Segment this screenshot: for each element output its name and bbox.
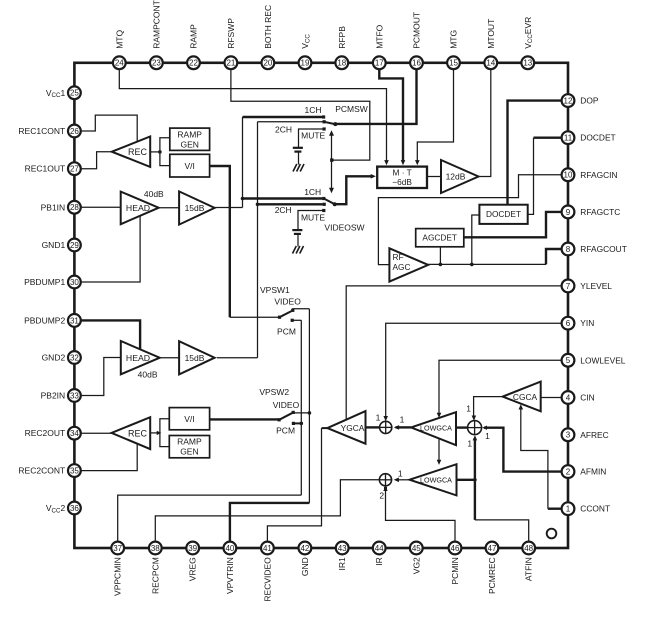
svg-text:REC: REC bbox=[128, 147, 148, 157]
pin 36 Vcc2 bbox=[68, 502, 81, 515]
pin 35 REC2CONT bbox=[68, 464, 81, 477]
svg-text:DOP: DOP bbox=[580, 96, 599, 106]
svg-text:BOTH REC: BOTH REC bbox=[263, 5, 273, 49]
svg-text:GEN: GEN bbox=[180, 447, 198, 457]
wire node2 output to LOWGCA1 input bbox=[456, 426, 468, 428]
svg-text:17: 17 bbox=[375, 59, 384, 68]
svg-text:RAMP: RAMP bbox=[177, 129, 202, 139]
svg-text:1: 1 bbox=[466, 404, 471, 414]
svg-text:5: 5 bbox=[566, 356, 571, 365]
svg-text:VIDEO: VIDEO bbox=[274, 296, 301, 306]
wire REC2 input junction to V-I2 / RAMP GEN2 bbox=[150, 432, 157, 434]
svg-text:PCMIN: PCMIN bbox=[450, 557, 460, 584]
pin 30 PBDUMP1 bbox=[68, 276, 81, 289]
block RAMP GEN 1 bbox=[170, 128, 210, 150]
svg-text:16: 16 bbox=[412, 59, 421, 68]
svg-text:GND2: GND2 bbox=[42, 353, 66, 363]
svg-text:VREG: VREG bbox=[188, 557, 198, 581]
svg-text:VPPCMIN: VPPCMIN bbox=[113, 557, 123, 596]
pin 33 PB2IN bbox=[68, 389, 81, 402]
svg-text:2CH: 2CH bbox=[275, 125, 292, 135]
wire pin2 AFMIN to summing node2 bbox=[484, 428, 562, 472]
pin 27 REC1OUT bbox=[68, 162, 81, 175]
svg-text:37: 37 bbox=[113, 544, 122, 553]
IC orientation dot bbox=[547, 529, 557, 539]
svg-text:30: 30 bbox=[70, 278, 79, 287]
svg-text:VCCEVR: VCCEVR bbox=[523, 17, 534, 49]
svg-text:12: 12 bbox=[564, 97, 573, 106]
svg-text:CCONT: CCONT bbox=[580, 504, 610, 514]
pin 15 MTG bbox=[447, 56, 460, 69]
svg-text:GEN: GEN bbox=[180, 139, 198, 149]
wire pin1 CCONT to CGCA gain control bbox=[548, 508, 562, 510]
svg-text:AFMIN: AFMIN bbox=[580, 467, 606, 477]
svg-text:15dB: 15dB bbox=[185, 203, 205, 213]
pin 46 PCMIN bbox=[449, 542, 462, 555]
IC body outline bbox=[74, 63, 568, 548]
svg-text:2: 2 bbox=[566, 468, 571, 477]
svg-text:1CH: 1CH bbox=[304, 187, 321, 197]
VPSW2 video contact junction bbox=[293, 412, 309, 414]
svg-text:MTOUT: MTOUT bbox=[486, 19, 496, 49]
svg-text:31: 31 bbox=[70, 316, 79, 325]
svg-text:35: 35 bbox=[70, 467, 79, 476]
svg-text:29: 29 bbox=[70, 241, 79, 250]
wire pin11 DOCDET pin to DOCDET box right bbox=[534, 136, 562, 138]
wire VIDEOSW pole to M-T block left input bbox=[335, 176, 372, 204]
pin 38 RECPCM bbox=[149, 542, 162, 555]
svg-text:IR: IR bbox=[374, 557, 384, 566]
pin 40 VPVTRIN bbox=[224, 542, 237, 555]
wire pin46 PCMIN to summing node3 bottom bbox=[386, 488, 456, 542]
svg-text:MUTE: MUTE bbox=[301, 131, 325, 141]
pin 44 IR bbox=[373, 542, 386, 555]
block DOCDET bbox=[479, 205, 527, 224]
svg-text:11: 11 bbox=[564, 134, 573, 143]
svg-text:1: 1 bbox=[566, 505, 571, 514]
VIDEOSW mute capacitor to ground bbox=[298, 211, 324, 230]
pin 34 REC2OUT bbox=[68, 427, 81, 440]
svg-text:PCM: PCM bbox=[276, 426, 295, 436]
op-amp HEAD2 bbox=[121, 341, 160, 374]
VPSW1 switch bbox=[278, 316, 281, 319]
summing node 2 bbox=[468, 421, 482, 435]
pin 12 DOP bbox=[562, 94, 575, 107]
block RAMP GEN 2 bbox=[169, 436, 209, 458]
svg-text:RFSWP: RFSWP bbox=[226, 18, 236, 49]
svg-text:RF: RF bbox=[393, 252, 404, 262]
svg-text:GND1: GND1 bbox=[42, 240, 66, 250]
svg-text:18: 18 bbox=[337, 59, 346, 68]
wire pin24 MTQ to M-T block top-left input bbox=[119, 69, 386, 161]
2CH line to PCMSW contact bbox=[258, 121, 323, 123]
svg-text:43: 43 bbox=[338, 544, 347, 553]
switch linkage line (ganged PCMSW/VIDEOSW) bbox=[331, 134, 333, 190]
junction on switch linkage bbox=[330, 158, 333, 161]
wire pin16 PCMOUT to PCMSW pole bbox=[336, 69, 417, 124]
svg-text:PBDUMP2: PBDUMP2 bbox=[24, 315, 65, 325]
op-amp 15dB 2 bbox=[179, 341, 215, 374]
wire pin14 MTOUT from 12dB output bbox=[479, 69, 491, 176]
svg-text:YLEVEL: YLEVEL bbox=[580, 281, 612, 291]
pin 9 RFAGCTC bbox=[562, 206, 575, 219]
wire pin30 PBDUMP1 to HEAD1 bottom edge bbox=[81, 216, 140, 283]
svg-text:HEAD: HEAD bbox=[126, 353, 150, 363]
wire HEAD2 output to 15dB2 input bbox=[160, 357, 179, 359]
wire LOWGCA2 output to summing node3 bbox=[395, 479, 409, 481]
wire pin10 RFAGCIN to RF AGC input bbox=[378, 175, 561, 265]
VPSW2 switch bbox=[278, 418, 281, 421]
wire pin6 YIN to summing node 1 bbox=[386, 323, 562, 417]
svg-text:REC1OUT: REC1OUT bbox=[25, 164, 66, 174]
wire pin48 ATFIN to node2 bottom and LOWGCA2 input bbox=[475, 520, 529, 542]
svg-text:YIN: YIN bbox=[580, 318, 594, 328]
wire 15dB2 output to 2CH bus bbox=[217, 357, 258, 359]
svg-text:4: 4 bbox=[566, 393, 571, 402]
svg-text:33: 33 bbox=[70, 391, 79, 400]
svg-text:MTFO: MTFO bbox=[374, 24, 384, 48]
wire REC1 input junction to RAMP GEN1 / V-I1 bbox=[150, 151, 160, 153]
2CH bus vertical bbox=[257, 122, 259, 358]
wire AGCDET bottom stub to RF AGC output line bbox=[439, 247, 441, 265]
svg-text:VIDEOSW: VIDEOSW bbox=[324, 222, 364, 232]
svg-text:1: 1 bbox=[485, 431, 490, 441]
block V/I 1 bbox=[170, 154, 210, 177]
svg-text:ATFIN: ATFIN bbox=[524, 557, 534, 581]
2CH line to VIDEOSW contact bbox=[258, 203, 323, 205]
svg-text:REC: REC bbox=[128, 428, 148, 438]
svg-text:6: 6 bbox=[566, 319, 571, 328]
svg-text:VG2: VG2 bbox=[411, 557, 421, 574]
ground symbol (PCMSW mute) bbox=[293, 164, 297, 172]
pin 48 ATFIN bbox=[522, 542, 535, 555]
svg-text:MUTE: MUTE bbox=[301, 213, 325, 223]
svg-text:9: 9 bbox=[566, 208, 571, 217]
wire pin7 YLEVEL to YGCA gain control bbox=[346, 286, 561, 419]
svg-text:1: 1 bbox=[376, 413, 381, 423]
svg-text:24: 24 bbox=[115, 59, 124, 68]
wire pin35 REC2CONT to REC2 bottom edge bbox=[81, 443, 137, 471]
pin 29 GND1 bbox=[68, 239, 81, 252]
svg-text:YGCA: YGCA bbox=[341, 423, 365, 433]
video bus to pin40 VPVTRIN bbox=[308, 413, 310, 503]
svg-text:PCMOUT: PCMOUT bbox=[412, 12, 422, 49]
svg-text:15: 15 bbox=[449, 59, 458, 68]
PCMSW switch contacts and arm bbox=[322, 115, 325, 118]
wire pin27 REC1OUT from REC1 output bbox=[81, 152, 112, 169]
wire summing node1 to YGCA input bbox=[366, 426, 380, 428]
wire 15dB1 output to 1CH bus bbox=[215, 207, 243, 209]
wire HEAD1 output to 15dB1 input bbox=[159, 207, 179, 209]
pin 16 PCMOUT bbox=[410, 56, 423, 69]
video bus vertical bbox=[308, 309, 310, 413]
VPSW2 pcm contact junction bbox=[293, 422, 301, 424]
pin 22 RAMP bbox=[187, 56, 200, 69]
svg-text:40dB: 40dB bbox=[144, 189, 164, 199]
wire pin17 MTFO to M-T block top-middle input bbox=[379, 69, 403, 161]
wire summing node3 output to pin38 RECPCM bbox=[155, 480, 379, 542]
pin 4 CIN bbox=[562, 391, 575, 404]
wire pin26 REC1CONT to REC1 top edge bbox=[81, 115, 137, 143]
pin 13 VccEVR bbox=[521, 56, 534, 69]
pin 6 YIN bbox=[562, 317, 575, 330]
svg-text:20: 20 bbox=[263, 59, 272, 68]
pin 8 RFAGCOUT bbox=[562, 243, 575, 256]
wire pin34 REC2OUT from REC2 output bbox=[81, 432, 112, 434]
svg-text:DOCDET: DOCDET bbox=[486, 209, 521, 219]
block AGCDET bbox=[416, 229, 464, 247]
svg-text:REC2CONT: REC2CONT bbox=[18, 466, 65, 476]
wire pin21 RFSWP to switch linkage bbox=[231, 69, 370, 160]
svg-text:26: 26 bbox=[70, 127, 79, 136]
op-amp REC2 (points left) bbox=[112, 417, 151, 449]
svg-text:VPVTRIN: VPVTRIN bbox=[225, 557, 235, 594]
ground symbol (VIDEOSW mute) bbox=[293, 246, 297, 254]
VPSW1 pcm contact to pcm bus bbox=[292, 319, 301, 321]
op-amp RF AGC bbox=[389, 248, 428, 281]
PCMSW mute capacitor to ground bbox=[299, 129, 325, 147]
svg-text:41: 41 bbox=[263, 544, 272, 553]
svg-text:22: 22 bbox=[189, 59, 198, 68]
svg-text:RECVIDEO: RECVIDEO bbox=[262, 557, 272, 602]
svg-text:REC2OUT: REC2OUT bbox=[25, 428, 66, 438]
svg-text:RFAGCTC: RFAGCTC bbox=[580, 207, 620, 217]
svg-text:21: 21 bbox=[226, 59, 235, 68]
svg-text:39: 39 bbox=[188, 544, 197, 553]
svg-text:−6dB: −6dB bbox=[392, 177, 412, 187]
op-amp YGCA (points left) bbox=[327, 411, 365, 444]
svg-text:8: 8 bbox=[566, 245, 571, 254]
summing node 1 bbox=[380, 421, 392, 433]
svg-text:1: 1 bbox=[398, 469, 403, 479]
pin 11 DOCDET bbox=[562, 131, 575, 144]
op-amp LOWGCA 2 (points left) bbox=[410, 464, 457, 495]
svg-text:RAMP: RAMP bbox=[189, 24, 199, 49]
1CH bus vertical bbox=[242, 117, 244, 208]
svg-text:46: 46 bbox=[451, 544, 460, 553]
wire pin4 CIN to CGCA input bbox=[541, 397, 562, 399]
pin 26 REC1CONT bbox=[68, 125, 81, 138]
pcm bus to pin37 VPPCMIN bbox=[118, 495, 302, 541]
svg-text:VPSW2: VPSW2 bbox=[259, 387, 289, 397]
pin 19 Vcc bbox=[299, 56, 312, 69]
svg-text:42: 42 bbox=[300, 544, 309, 553]
svg-text:V/I: V/I bbox=[184, 161, 194, 171]
VPSW1 video contact to video bus bbox=[293, 309, 310, 311]
svg-text:45: 45 bbox=[412, 544, 421, 553]
pin 2 AFMIN bbox=[562, 465, 575, 478]
svg-text:1: 1 bbox=[400, 414, 405, 424]
svg-text:DOCDET: DOCDET bbox=[580, 133, 615, 143]
svg-text:23: 23 bbox=[152, 59, 161, 68]
svg-text:38: 38 bbox=[151, 544, 160, 553]
wire pin31 PBDUMP2 to HEAD2 top edge bbox=[81, 320, 140, 349]
wire pin12 DOP to DOCDET top bbox=[508, 101, 562, 205]
op-amp REC1 (record amp 1, points left) bbox=[112, 137, 150, 167]
pin 25 Vcc1 bbox=[68, 86, 81, 99]
svg-text:RFPB: RFPB bbox=[337, 26, 347, 49]
block M-T -6dB bbox=[377, 167, 427, 188]
wire V-I1 output to VPSW1 pole bbox=[210, 166, 230, 317]
svg-text:RFAGCIN: RFAGCIN bbox=[580, 170, 617, 180]
svg-text:15dB: 15dB bbox=[185, 353, 205, 363]
op-amp HEAD1 (head amp, 40dB) bbox=[121, 192, 159, 225]
svg-text:2CH: 2CH bbox=[275, 205, 292, 215]
svg-text:19: 19 bbox=[301, 59, 310, 68]
svg-text:PCM: PCM bbox=[277, 327, 296, 337]
svg-text:RAMPCONT: RAMPCONT bbox=[151, 0, 161, 49]
svg-text:3: 3 bbox=[566, 431, 571, 440]
svg-text:36: 36 bbox=[70, 504, 79, 513]
svg-text:PCMREC: PCMREC bbox=[487, 557, 497, 594]
svg-text:47: 47 bbox=[488, 544, 497, 553]
svg-text:44: 44 bbox=[375, 544, 384, 553]
pin 3 AFREC bbox=[562, 428, 575, 441]
VIDEOSW switch contacts and arm bbox=[322, 197, 325, 200]
svg-text:7: 7 bbox=[566, 282, 571, 291]
1CH line to VIDEOSW contact bbox=[243, 197, 323, 199]
svg-text:VPSW1: VPSW1 bbox=[260, 285, 290, 295]
svg-text:40dB: 40dB bbox=[138, 369, 158, 379]
wire M-T output to 12dB input bbox=[427, 176, 441, 178]
pcm bus vertical bbox=[300, 320, 302, 495]
pin 43 IR1 bbox=[336, 542, 349, 555]
svg-text:2: 2 bbox=[379, 491, 384, 501]
svg-text:V/I: V/I bbox=[184, 414, 194, 424]
svg-text:1: 1 bbox=[467, 438, 472, 448]
svg-text:PCMSW: PCMSW bbox=[335, 104, 368, 114]
pin 1 CCONT bbox=[562, 502, 575, 515]
svg-text:32: 32 bbox=[70, 353, 79, 362]
svg-text:LOWGCA: LOWGCA bbox=[420, 423, 452, 432]
svg-text:40: 40 bbox=[225, 544, 234, 553]
pin 31 PBDUMP2 bbox=[68, 314, 81, 327]
svg-text:27: 27 bbox=[70, 165, 79, 174]
pin 23 RAMPCONT bbox=[150, 56, 163, 69]
svg-text:AFREC: AFREC bbox=[580, 430, 608, 440]
svg-text:14: 14 bbox=[486, 59, 495, 68]
wire LOWGCA1 output to summing node1 bbox=[396, 426, 412, 428]
pin 14 MTOUT bbox=[484, 56, 497, 69]
pin 18 RFPB bbox=[335, 56, 348, 69]
pin 39 VREG bbox=[186, 542, 199, 555]
pin 24 MTQ bbox=[113, 56, 126, 69]
block V/I 2 bbox=[169, 408, 209, 430]
svg-text:13: 13 bbox=[523, 59, 532, 68]
pin 42 GND bbox=[299, 542, 312, 555]
svg-text:IR1: IR1 bbox=[337, 557, 347, 571]
op-amp 12dB bbox=[441, 160, 479, 193]
summing node 3 bbox=[379, 474, 391, 486]
svg-text:LOWGCA: LOWGCA bbox=[420, 476, 452, 485]
pin 45 VG2 bbox=[410, 542, 423, 555]
svg-text:1CH: 1CH bbox=[304, 105, 321, 115]
pin 41 RECVIDEO bbox=[261, 542, 274, 555]
pin 21 RFSWP bbox=[225, 56, 238, 69]
op-amp CGCA (points left) bbox=[503, 382, 541, 412]
wire pin33 PB2IN to HEAD2 input bbox=[81, 358, 121, 396]
svg-text:LOWLEVEL: LOWLEVEL bbox=[580, 355, 625, 365]
wire pin15 MTG to M-T block top-right input bbox=[417, 69, 453, 161]
svg-text:HEAD: HEAD bbox=[126, 203, 150, 213]
svg-text:AGCDET: AGCDET bbox=[422, 233, 457, 243]
pin 47 PCMREC bbox=[486, 542, 499, 555]
svg-text:25: 25 bbox=[70, 89, 79, 98]
pin 37 VPPCMIN bbox=[111, 542, 124, 555]
svg-text:MTG: MTG bbox=[449, 30, 459, 49]
svg-text:48: 48 bbox=[524, 544, 533, 553]
wire YGCA output to pin41 RECVIDEO bbox=[322, 427, 328, 429]
svg-text:PB1IN: PB1IN bbox=[41, 202, 66, 212]
svg-text:RECPCM: RECPCM bbox=[150, 557, 160, 594]
op-amp 15dB 1 bbox=[179, 191, 215, 224]
pin 10 RFAGCIN bbox=[562, 168, 575, 181]
svg-text:MTQ: MTQ bbox=[114, 30, 124, 49]
pin 17 MTFO bbox=[373, 56, 386, 69]
svg-text:28: 28 bbox=[70, 203, 79, 212]
svg-text:34: 34 bbox=[70, 429, 79, 438]
pin 7 YLEVEL bbox=[562, 280, 575, 293]
wire AGCDET output to pin9 RFAGCTC bbox=[464, 212, 562, 237]
wire DOCDET box left to RF AGC output line bbox=[472, 215, 480, 264]
pin 20 BOTH REC bbox=[262, 56, 275, 69]
wire V-I2 output to VPSW2 pole bbox=[210, 418, 279, 420]
svg-text:GND: GND bbox=[300, 557, 310, 576]
1CH line to PCMSW contact bbox=[243, 116, 323, 118]
svg-text:12dB: 12dB bbox=[446, 172, 466, 182]
svg-text:CIN: CIN bbox=[580, 393, 594, 403]
svg-text:PB2IN: PB2IN bbox=[41, 391, 66, 401]
svg-text:AGC: AGC bbox=[393, 262, 411, 272]
wire pin5 LOWLEVEL to LOWGCA gain controls bbox=[439, 360, 562, 414]
svg-text:RFAGCOUT: RFAGCOUT bbox=[580, 244, 627, 254]
wire RF AGC output to pin8 RFAGCOUT bbox=[428, 263, 546, 265]
pin 5 LOWLEVEL bbox=[562, 354, 575, 367]
op-amp LOWGCA 1 (points left) bbox=[411, 412, 456, 445]
wire pin28 PB1IN to HEAD1 input bbox=[81, 206, 121, 208]
svg-text:10: 10 bbox=[564, 171, 573, 180]
wire CGCA output to summing node2 bbox=[474, 397, 503, 417]
svg-text:REC1CONT: REC1CONT bbox=[18, 126, 65, 136]
svg-text:RAMP: RAMP bbox=[177, 437, 202, 447]
pin 32 GND2 bbox=[68, 351, 81, 364]
pin 28 PB1IN bbox=[68, 201, 81, 214]
svg-text:PBDUMP1: PBDUMP1 bbox=[24, 277, 65, 287]
svg-text:VIDEO: VIDEO bbox=[273, 400, 300, 410]
svg-text:CGCA: CGCA bbox=[513, 392, 538, 402]
